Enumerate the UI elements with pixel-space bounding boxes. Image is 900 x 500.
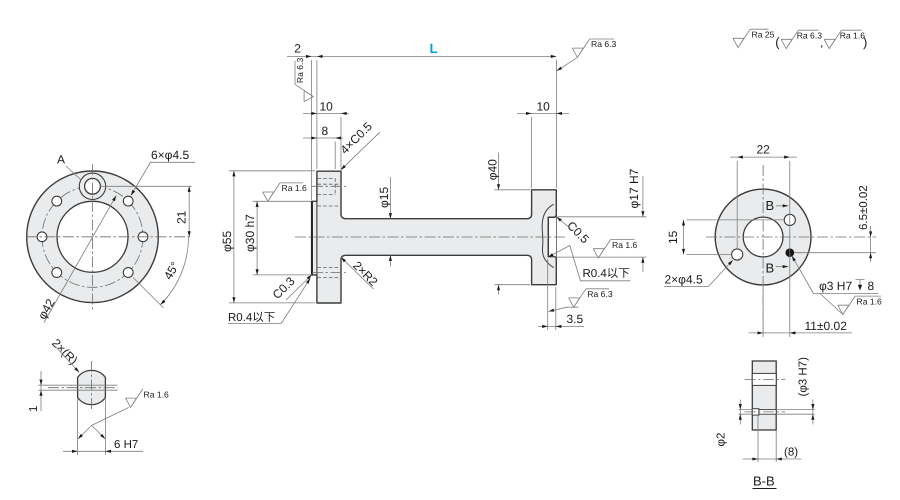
flange bore circle phi30: [57, 201, 128, 272]
hidden line bolt hole top d: [318, 205, 342, 207]
underline B-B: [753, 488, 777, 490]
svg-text:Ra 6.3: Ra 6.3: [295, 58, 305, 84]
svg-text:22: 22: [757, 143, 771, 157]
svg-text:φ30 h7: φ30 h7: [243, 214, 257, 252]
svg-text:2×φ4.5: 2×φ4.5: [665, 272, 703, 286]
leader 4xC0.5: [341, 132, 380, 170]
svg-text:L: L: [430, 41, 438, 56]
svg-text:Ra 25: Ra 25: [752, 29, 775, 39]
leader C0.5: [557, 217, 571, 229]
hidden line bolt hole bottom a: [318, 267, 342, 269]
dimension phi15 lower: [389, 255, 391, 266]
bolt hole lower right: [123, 268, 133, 278]
slot centerline: [745, 378, 786, 380]
leader 2x(R): [56, 347, 80, 373]
dimension 10 right line: [517, 112, 569, 114]
dimension 8 line: [303, 137, 343, 139]
svg-text:2: 2: [294, 42, 301, 56]
hole A inner circle: [85, 178, 101, 194]
leader A: [66, 166, 81, 180]
svg-text:A: A: [57, 153, 65, 167]
svg-text:φ17 H7: φ17 H7: [627, 168, 641, 208]
dimension 6 H7 line: [63, 450, 143, 452]
hidden line boss hole top b: [318, 183, 342, 185]
45 degree arc: [160, 237, 188, 305]
svg-text:(8): (8): [784, 447, 798, 459]
pin upper edge line: [39, 384, 118, 386]
dimension 3.5 extension lines: [548, 259, 556, 330]
dimension 3.5 line: [538, 325, 584, 327]
svg-text:Ra 1.6: Ra 1.6: [857, 296, 883, 306]
pin detail body circle with flats: [78, 370, 106, 404]
dimension phi55 extension lines: [229, 171, 315, 303]
45 degree extension line radial: [133, 278, 163, 308]
dimension 2 and L shared line: [287, 55, 556, 57]
boss hole centerline: [312, 185, 346, 187]
vertical centerline extension for 11 dim: [762, 285, 764, 337]
leader phi3 underline: [814, 293, 879, 295]
bolt hole right: [138, 232, 148, 242]
boss circle around hole A: [79, 173, 105, 199]
svg-text:φ3 H7: φ3 H7: [819, 279, 852, 293]
depth symbol: [856, 280, 865, 287]
svg-text:Ra 1.6: Ra 1.6: [840, 30, 866, 40]
svg-text:B: B: [766, 260, 775, 275]
bore phi17 circle: [743, 217, 783, 257]
bottom hole centerline: [312, 272, 346, 274]
bolt circle phi42 centerline: [42, 186, 143, 287]
extension line lip left face: [311, 60, 313, 200]
leader B lower: [776, 266, 789, 268]
dimension 8 line: [743, 458, 802, 460]
dimension 22 line: [730, 156, 797, 158]
dimension phi30h7 line: [256, 201, 258, 275]
svg-text:(φ3 H7): (φ3 H7): [798, 357, 810, 397]
surface Ra25 general: [733, 29, 750, 47]
svg-text:B: B: [766, 198, 775, 213]
section line B-B: [789, 161, 791, 337]
dimension 21 line: [188, 186, 190, 237]
bore phi17 in right flange: [548, 215, 556, 258]
svg-text:Ra 6.3: Ra 6.3: [797, 30, 823, 40]
phi2 centerline: [745, 411, 786, 413]
svg-text:Ra 6.3: Ra 6.3: [591, 39, 617, 49]
dimension 6.5 extension lines: [794, 252, 876, 254]
svg-text:11±0.02: 11±0.02: [805, 319, 848, 333]
svg-text:R0.4以下: R0.4以下: [583, 267, 630, 280]
bolt hole left: [37, 232, 47, 242]
leader 2xphi4.5: [664, 260, 733, 286]
hidden line boss hole top c: [318, 194, 336, 196]
dimension 21 extension line: [100, 185, 192, 187]
flange front view outer circle: [27, 171, 159, 303]
svg-text:10: 10: [320, 100, 334, 114]
surface Ra6.3 general: [781, 30, 798, 48]
dimension phi55 line: [233, 171, 235, 303]
svg-text:6×φ4.5: 6×φ4.5: [151, 148, 189, 162]
svg-text:21: 21: [175, 210, 189, 224]
surface Ra1.6 general: [824, 30, 841, 48]
leader B upper: [776, 205, 789, 207]
surface Ra1.6 on lip face: [263, 183, 280, 201]
phi3H7 extension lines right: [776, 410, 814, 415]
phi2 dimension line: [739, 400, 741, 425]
phi3 notch: [752, 409, 759, 415]
main centerline: [295, 236, 565, 238]
svg-text:Ra 1.6: Ra 1.6: [144, 390, 170, 400]
vertical centerline right view: [762, 165, 764, 332]
bolt hole lower left: [52, 268, 62, 278]
surface finish Ra1.6 leader fork: [78, 408, 129, 439]
surface Ra6.3 rotated on lip left face: [295, 58, 313, 102]
dimension phi17H7 line: [642, 176, 644, 272]
svg-text:6.5±0.02: 6.5±0.02: [858, 185, 870, 230]
surface Ra1.6 right view: [820, 294, 843, 315]
extension line right end face: [555, 60, 557, 188]
extension line flange right face: [340, 117, 342, 169]
svg-text:Ra 1.6: Ra 1.6: [612, 240, 638, 250]
dimension 6 H7 extension lines: [78, 399, 106, 455]
left flange face line: [316, 201, 318, 275]
svg-text:(: (: [775, 34, 780, 49]
svg-text:φ40: φ40: [485, 159, 499, 180]
section B-B body: [752, 361, 776, 430]
hidden line boss hole top a: [318, 177, 336, 179]
dimension phi40 upper: [498, 153, 500, 190]
phi2 hole slot: [759, 410, 776, 415]
svg-text:Ra 6.3: Ra 6.3: [587, 289, 613, 299]
phi2 extension lines: [739, 410, 753, 415]
dimension 8 extension lines: [758, 416, 776, 462]
surface finish Ra1.6 symbol: [126, 389, 143, 407]
dimension phi40 lower: [498, 285, 500, 295]
svg-text:B-B: B-B: [753, 474, 775, 489]
leader phi3 diagonal: [792, 256, 814, 294]
spring curve inside right flange: [542, 204, 553, 267]
horizontal centerline: [26, 236, 192, 238]
dimension 1 line: [40, 371, 42, 411]
svg-text:15: 15: [666, 230, 680, 244]
svg-text:): ): [863, 34, 867, 49]
phi40 extension lines: [495, 190, 531, 285]
extension line counterbore: [334, 142, 336, 170]
hole phi4.5 lower left: [732, 249, 743, 260]
svg-text:φ15: φ15: [377, 187, 391, 208]
svg-text:10: 10: [537, 100, 551, 114]
leader C0.3: [286, 275, 312, 300]
leader 2xR2: [341, 257, 374, 289]
dimension 6.5 line: [870, 226, 872, 262]
hole phi3 filled: [786, 248, 795, 257]
leader R0.4 right: [548, 246, 631, 281]
extension line right flange left face: [531, 117, 533, 188]
hidden counterbore vertical: [334, 178, 336, 194]
leader R0.4 left: [228, 278, 310, 323]
dimension 15 extension lines: [687, 220, 785, 255]
right flange front view outer circle: [715, 189, 811, 285]
extension line flange left face: [316, 60, 318, 169]
vertical centerline: [92, 164, 94, 310]
phi3H7 dimension line: [812, 400, 814, 425]
svg-text:,: ,: [820, 36, 823, 50]
shaft body outline with flanges: [312, 171, 557, 303]
pin lower edge line: [39, 389, 118, 391]
surface Ra6.3 bottom right leader: [549, 307, 579, 311]
svg-text:8: 8: [868, 279, 875, 293]
horizontal centerline right view: [706, 236, 876, 238]
svg-text:6 H7: 6 H7: [114, 439, 138, 451]
svg-text:φ55: φ55: [220, 231, 234, 252]
dimension 22 extension left: [736, 161, 738, 249]
dimension 11 line: [749, 332, 852, 334]
svg-text:φ2: φ2: [716, 433, 728, 447]
leader phi42: [44, 196, 116, 323]
dimension phi17H7 extension lines: [549, 217, 647, 257]
pin vertical centerline: [91, 361, 93, 412]
dimension 15 line: [683, 220, 685, 255]
svg-text:1: 1: [28, 406, 40, 412]
lip left face emphasized: [311, 202, 313, 275]
hidden line bolt hole bottom b: [318, 276, 342, 278]
dimension 10 left line: [303, 112, 349, 114]
bolt hole upper right: [123, 196, 133, 206]
hole phi4.5 upper right: [784, 214, 795, 225]
leader 6xphi4.5: [131, 162, 195, 195]
bolt hole upper left: [52, 196, 62, 206]
svg-text:8: 8: [322, 124, 329, 138]
surface Ra1.6 on phi17 ext: [593, 240, 610, 258]
dimension phi30h7 extension lines: [253, 201, 311, 275]
phi4.5 hole slot: [752, 373, 776, 385]
pin horizontal centerline: [48, 387, 118, 389]
dimension phi15 upper: [389, 177, 391, 219]
surface Ra6.3 top right with leader: [557, 57, 578, 71]
svg-text:Ra 1.6: Ra 1.6: [282, 183, 308, 193]
svg-text:3.5: 3.5: [567, 312, 584, 326]
svg-text:R0.4以下: R0.4以下: [228, 311, 275, 324]
